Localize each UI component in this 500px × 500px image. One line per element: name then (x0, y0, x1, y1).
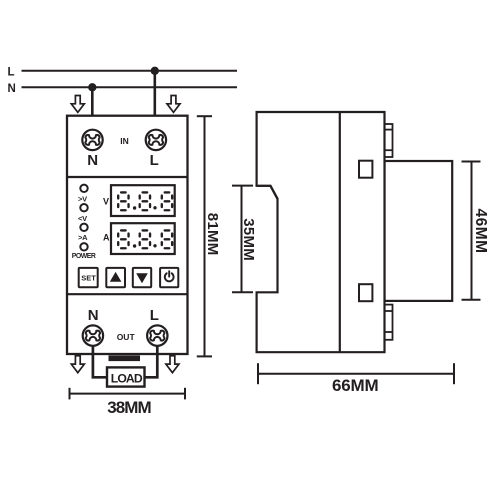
current display digits 8.8.8 (118, 230, 172, 248)
OUT terminal screw N (83, 325, 103, 345)
dimension 66MM line (258, 363, 454, 384)
svg-text:81MM: 81MM (204, 213, 221, 256)
main side body (257, 112, 385, 352)
din rail clip (black) (109, 355, 141, 361)
svg-text:OUT: OUT (117, 332, 136, 342)
IN terminal screw N (82, 130, 102, 150)
svg-text:35MM: 35MM (240, 218, 257, 261)
svg-text:L: L (150, 307, 159, 324)
svg-text:38MM: 38MM (107, 398, 151, 417)
button SET (79, 268, 98, 287)
svg-text:POWER: POWER (72, 253, 96, 260)
svg-text:N: N (8, 83, 16, 95)
LED >A (80, 224, 87, 231)
bottom clip tab inner lines (385, 310, 393, 312)
svg-text:L: L (150, 152, 159, 169)
top square hole (359, 161, 372, 178)
output flow arrow left (71, 356, 84, 373)
svg-text:<V: <V (78, 214, 87, 223)
top clip tab (385, 124, 393, 157)
svg-text:A: A (103, 232, 110, 242)
svg-text:IN: IN (120, 136, 129, 146)
voltage display digits 8.8.8 (118, 192, 172, 210)
bottom clip tab (385, 305, 393, 340)
svg-text:L: L (8, 66, 15, 78)
svg-text:LOAD: LOAD (111, 371, 143, 385)
wire OUT L to load (145, 346, 158, 378)
svg-text:66MM: 66MM (332, 376, 378, 395)
IN terminal screw L (146, 130, 166, 150)
LED <V (80, 204, 87, 211)
divider line top section (67, 176, 188, 178)
svg-text:N: N (88, 307, 99, 324)
bottom square hole (359, 284, 372, 301)
junction dot on N wire (88, 83, 96, 91)
button UP (106, 268, 125, 287)
device outer case (67, 116, 188, 354)
body divider line (339, 112, 341, 352)
OUT terminal screw L (147, 325, 167, 345)
output flow arrow right (166, 356, 179, 373)
button DOWN (133, 268, 151, 287)
svg-text:V: V (103, 197, 109, 207)
LED >V (80, 185, 87, 192)
current display frame (111, 223, 175, 254)
wire N (supply line) (22, 86, 238, 88)
LOAD box (107, 367, 145, 386)
svg-text:>A: >A (78, 233, 88, 242)
notch chamfer fix line (257, 186, 278, 199)
svg-text:>V: >V (78, 194, 87, 203)
wire L (supply line) (22, 70, 238, 72)
LED POWER (80, 243, 87, 250)
input flow arrow right (167, 96, 180, 113)
input flow arrow left (71, 96, 84, 113)
dimension 35MM line (232, 186, 253, 293)
voltage display frame (111, 185, 175, 216)
junction dot on L wire (151, 67, 159, 75)
divider line bottom section (67, 293, 188, 295)
wire from N junction to IN terminal N (91, 87, 94, 130)
svg-text:N: N (87, 152, 98, 169)
wire OUT N to load (93, 346, 107, 378)
svg-text:46MM: 46MM (472, 209, 489, 254)
top clip tab inner lines (385, 129, 393, 131)
button POWER (160, 268, 178, 287)
dimension 46MM line (462, 162, 481, 300)
dimension 81MM line (197, 116, 212, 356)
wire from L junction to IN terminal L (154, 71, 157, 131)
dimension 38MM line (70, 388, 186, 400)
svg-text:SET: SET (81, 274, 96, 283)
front panel block (385, 161, 453, 301)
